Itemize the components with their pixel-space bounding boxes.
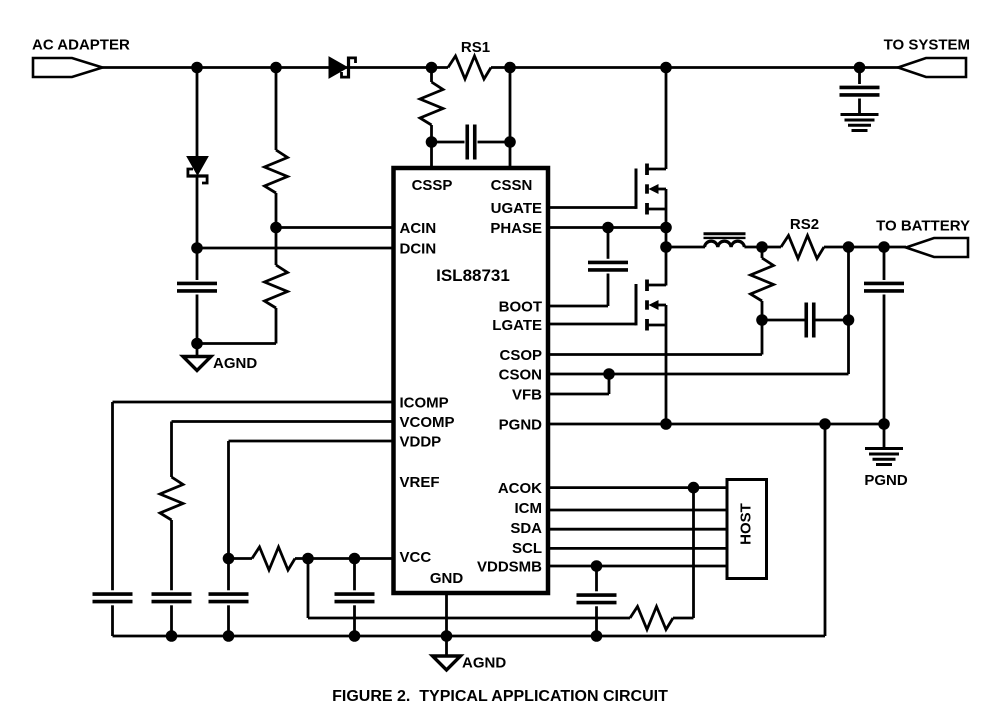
node dot GND rail	[441, 630, 453, 642]
svg-text:TO SYSTEM: TO SYSTEM	[884, 37, 970, 54]
wire DCIN node to cap	[196, 248, 199, 280]
wire phase to inductor	[666, 246, 705, 249]
resistor ACIN divider top	[265, 150, 288, 193]
node dot system cap	[854, 62, 866, 74]
svg-text:VDDSMB: VDDSMB	[477, 559, 542, 576]
node dot VDDSMB rail	[591, 630, 603, 642]
svg-text:CSSP: CSSP	[412, 177, 453, 194]
node dot ACIN	[270, 222, 282, 234]
wire RS1 right to CSSN pin	[509, 68, 512, 169]
wire ICOMP vertical	[111, 402, 114, 590]
node dot CSOP node	[756, 314, 768, 326]
wire VCOMP vertical	[170, 422, 173, 478]
wire corner to AGND node	[197, 342, 276, 345]
svg-text:GND: GND	[430, 570, 464, 587]
wire VFB up	[608, 374, 611, 394]
wire VCOMP cap to rail	[170, 605, 173, 636]
node dot DCIN	[191, 242, 203, 254]
wire ACOK riser	[692, 488, 695, 618]
node dot ACOK	[688, 482, 700, 494]
wire VDDSMB cap top	[595, 566, 598, 591]
wire ICOMP horizontal	[113, 401, 394, 404]
svg-text:RS1: RS1	[461, 39, 490, 56]
capacitor BOOT	[588, 261, 628, 265]
chassis ground system	[841, 113, 879, 116]
svg-text:ACOK: ACOK	[498, 480, 542, 497]
wire VFB	[548, 393, 609, 396]
transistor Q2 low-side NMOS	[635, 284, 638, 325]
svg-text:VCC: VCC	[400, 549, 432, 566]
wire inductor to RS2	[744, 246, 781, 249]
wire BOOT cap bottom	[607, 274, 610, 307]
node dot VDDP-VCC	[223, 553, 235, 565]
wire VCOMP horizontal	[172, 420, 394, 423]
wire RS2 to battery	[824, 246, 906, 249]
wire BOOT	[548, 305, 608, 308]
node dot PGND rail riser	[819, 418, 831, 430]
ground AGND left	[183, 357, 211, 371]
capacitor ICOMP	[93, 592, 133, 596]
wire VCC J1 to resistor	[308, 617, 630, 620]
node dot PHASE source	[660, 222, 672, 234]
wire DCIN	[197, 247, 394, 250]
wire PHASE	[548, 226, 666, 229]
svg-text:ICOMP: ICOMP	[400, 395, 449, 412]
wire PGND symbol stem	[883, 424, 886, 449]
wire Q1 drain	[665, 68, 668, 170]
wire adapter to diode D2	[196, 68, 199, 158]
svg-text:SDA: SDA	[510, 520, 542, 537]
input connector AC ADAPTER	[33, 58, 103, 77]
node dot RS1 right	[504, 62, 516, 74]
wire top rail left	[103, 66, 449, 69]
node dot VCC-J1	[302, 553, 314, 565]
wire LGATE	[548, 323, 636, 326]
svg-text:ISL88731: ISL88731	[436, 266, 510, 285]
wire SDA	[548, 528, 727, 531]
wire RS1 left down	[430, 68, 433, 83]
node dot CSON node	[843, 314, 855, 326]
wire cap to CSSN	[478, 141, 511, 144]
resistor RS2	[781, 236, 824, 259]
resistor VCC	[252, 547, 295, 570]
resistor CSOP filter	[751, 258, 774, 301]
inductor L1	[705, 241, 745, 247]
node dot VDDP rail	[223, 630, 235, 642]
capacitor CSOP-CSON	[804, 303, 808, 338]
wire VDDP vertical	[227, 441, 230, 559]
node dot AGND junction	[191, 338, 203, 350]
capacitor VDDP	[209, 592, 249, 596]
wire CSON	[548, 373, 849, 376]
wire rail to R2 top	[275, 68, 278, 151]
svg-text:AC ADAPTER: AC ADAPTER	[32, 37, 130, 54]
node dot CSSP	[426, 136, 438, 148]
svg-text:CSSN: CSSN	[491, 177, 533, 194]
wire VCC left	[229, 557, 253, 560]
resistor CSSP filter	[420, 82, 443, 125]
wire VCC cap to rail	[353, 605, 356, 636]
svg-text:UGATE: UGATE	[491, 200, 542, 217]
wire UGATE	[548, 206, 636, 209]
diode D2 (Schottky) to AGND	[187, 157, 208, 176]
wire diode D2 to DCIN node	[196, 176, 199, 248]
node dot PHASE boot	[602, 222, 614, 234]
svg-text:VREF: VREF	[400, 474, 440, 491]
svg-text:PGND: PGND	[864, 472, 908, 489]
wire system cap bottom	[858, 99, 861, 115]
svg-text:RS2: RS2	[790, 216, 819, 233]
wire AGND stem	[196, 344, 199, 357]
wire CSSP to cap	[432, 141, 465, 144]
wire bottom ground rail	[113, 635, 826, 638]
output connector TO SYSTEM	[898, 58, 966, 77]
wire ACIN	[276, 226, 394, 229]
node dot snubber top	[756, 241, 768, 253]
wire ICM	[548, 509, 727, 512]
wire ground rail riser	[824, 424, 827, 636]
output connector TO BATTERY	[906, 238, 968, 257]
wire battery cap top	[883, 247, 886, 280]
wire top rail right	[491, 66, 898, 69]
svg-text:FIGURE 2. TYPICAL APPLICATION: FIGURE 2. TYPICAL APPLICATION CIRCUIT	[332, 688, 668, 705]
wire VCC J2 down	[353, 559, 356, 591]
resistor VCOMP	[160, 477, 183, 520]
wire to CSSP pin	[430, 125, 433, 168]
svg-text:BOOT: BOOT	[499, 299, 542, 316]
wire cap to CSON riser	[814, 319, 849, 322]
wire system cap top	[858, 68, 861, 85]
wire ICOMP cap to rail	[111, 605, 114, 636]
HOST box	[727, 480, 767, 579]
node dot VDDSMB	[591, 560, 603, 572]
wire snubber resistor top	[761, 247, 764, 258]
svg-text:DCIN: DCIN	[400, 241, 437, 258]
node dot CSSN	[504, 136, 516, 148]
wire CSOP	[548, 353, 762, 356]
svg-text:AGND: AGND	[213, 355, 257, 372]
wire battery cap bottom	[883, 295, 886, 425]
wire CSON riser	[847, 247, 850, 374]
ground AGND bottom	[433, 656, 461, 670]
node dot adapter-J1	[191, 62, 203, 74]
node dot RS1 left	[426, 62, 438, 74]
wire resistor to riser	[673, 617, 694, 620]
capacitor battery output	[864, 282, 904, 286]
svg-text:VDDP: VDDP	[400, 434, 442, 451]
node dot VCOMP rail	[166, 630, 178, 642]
resistor ACOK pullup	[630, 607, 673, 630]
node dot inductor node	[660, 241, 672, 253]
capacitor input filter	[177, 282, 217, 286]
node dot VFB junction	[603, 368, 615, 380]
node dot battery cap	[878, 241, 890, 253]
wire CSOP up	[761, 320, 764, 355]
wire VCOMP res to cap	[170, 520, 173, 590]
capacitor VCC	[335, 592, 375, 596]
op-amp U1 ISL88731 body	[394, 168, 549, 593]
wire ACOK	[548, 486, 727, 489]
wire VCC J1 down	[307, 559, 310, 619]
svg-text:CSON: CSON	[499, 367, 542, 384]
capacitor VCOMP	[152, 592, 192, 596]
resistor ACIN divider bottom	[265, 265, 288, 308]
transistor Q1 high-side NMOS	[635, 169, 638, 209]
node dot system rail Q1 drain	[660, 62, 672, 74]
node dot adapter-J2	[270, 62, 282, 74]
svg-text:LGATE: LGATE	[492, 317, 542, 334]
capacitor VDDSMB	[577, 593, 617, 597]
wire R2 to ACIN node	[275, 193, 278, 265]
wire R3 to corner	[275, 308, 278, 344]
wire CSOP node to cap	[762, 319, 807, 322]
svg-text:TO BATTERY: TO BATTERY	[876, 218, 970, 235]
node dot VCC-J2	[349, 553, 361, 565]
svg-text:PGND: PGND	[499, 417, 543, 434]
wire Q2 source to PGND	[665, 325, 668, 424]
wire SCL	[548, 547, 727, 550]
wire VDDP horizontal	[229, 440, 394, 443]
svg-text:VCOMP: VCOMP	[400, 414, 455, 431]
node dot VCC rail	[349, 630, 361, 642]
wire Q1 source to Q2 drain	[665, 209, 668, 286]
svg-text:HOST: HOST	[737, 503, 754, 545]
ground PGND symbol	[865, 447, 903, 450]
wire VCC right	[295, 557, 394, 560]
svg-text:ICM: ICM	[515, 500, 543, 517]
wire PGND	[548, 423, 884, 426]
wire VDDSMB cap bottom	[595, 606, 598, 636]
capacitor system output	[840, 86, 880, 90]
node dot PGND line right	[878, 418, 890, 430]
resistor RS1	[448, 56, 491, 79]
node dot PGND Q2	[660, 418, 672, 430]
svg-text:AGND: AGND	[462, 655, 506, 672]
capacitor CSSP-CSSN	[465, 125, 469, 160]
wire BOOT cap top	[607, 228, 610, 259]
svg-text:VFB: VFB	[512, 387, 542, 404]
wire VDDP cap to rail	[227, 605, 230, 636]
node dot RS2 right	[843, 241, 855, 253]
wire snubber res to node	[761, 301, 764, 320]
svg-text:CSOP: CSOP	[499, 347, 542, 364]
svg-text:PHASE: PHASE	[490, 220, 542, 237]
svg-text:SCL: SCL	[512, 540, 542, 557]
wire cap to AGND node	[196, 295, 199, 344]
wire GND stem	[445, 593, 448, 656]
diode D1 (Schottky) on adapter rail	[329, 57, 348, 78]
wire VDDSMB	[548, 565, 727, 568]
wire VDDP to cap	[227, 559, 230, 591]
svg-text:ACIN: ACIN	[400, 220, 437, 237]
